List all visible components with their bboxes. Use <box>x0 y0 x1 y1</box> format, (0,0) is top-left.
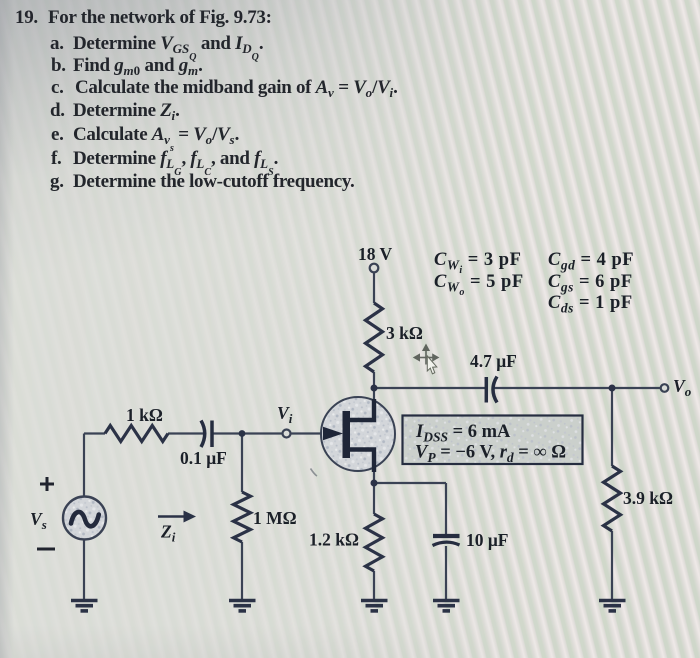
svg-text:Cgs = 6 pF: Cgs = 6 pF <box>548 272 633 295</box>
svg-text:10 μF: 10 μF <box>466 530 509 550</box>
svg-text:3 kΩ: 3 kΩ <box>386 323 423 343</box>
svg-text:CWo = 5 pF: CWo = 5 pF <box>434 272 524 298</box>
svg-text:4.7 μF: 4.7 μF <box>470 351 517 371</box>
svg-text:0.1 μF: 0.1 μF <box>180 448 227 468</box>
svg-text:3.9 kΩ: 3.9 kΩ <box>623 488 673 508</box>
svg-text:Cds = 1 pF: Cds = 1 pF <box>548 293 633 316</box>
svg-text:VP = −6 V, rd = ∞ Ω: VP = −6 V, rd = ∞ Ω <box>415 443 566 466</box>
svg-text:Zi: Zi <box>160 522 176 545</box>
svg-text:1 kΩ: 1 kΩ <box>126 405 163 425</box>
svg-text:Cgd = 4 pF: Cgd = 4 pF <box>548 250 634 273</box>
svg-text:18 V: 18 V <box>358 244 393 264</box>
svg-text:1 MΩ: 1 MΩ <box>253 508 297 528</box>
svg-text:Vo: Vo <box>673 376 692 399</box>
svg-text:1.2 kΩ: 1.2 kΩ <box>309 530 359 550</box>
svg-text:Vi: Vi <box>277 403 293 426</box>
svg-text:Vs: Vs <box>30 509 47 532</box>
